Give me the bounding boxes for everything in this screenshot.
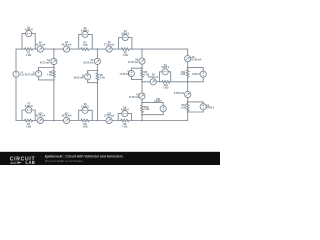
wire VM3 topwire R <box>128 37 132 39</box>
wire loopR2 bottom <box>188 111 204 113</box>
wire top rail seg1 <box>16 48 25 50</box>
label AM1 <box>35 41 45 46</box>
label VM4 <box>161 64 169 69</box>
wire bottom rail seg5 <box>89 120 106 122</box>
wire loopR1 right upper <box>202 67 204 71</box>
ammeter AM3 <box>106 46 112 52</box>
wire loop2 top <box>88 70 98 72</box>
wire VM2 left <box>78 34 80 49</box>
label AM4 <box>40 59 51 64</box>
wire loop3 left lower <box>130 77 132 80</box>
resistor R1 <box>25 48 33 51</box>
label R10 <box>144 107 149 111</box>
wire branch3 lower b <box>141 99 143 105</box>
label AM3 <box>104 41 114 46</box>
wire bottom rail seg3 <box>43 120 63 122</box>
node branch2 loop top node <box>97 70 99 72</box>
voltmeter VM9 <box>122 111 128 117</box>
wire loop2 left upper <box>87 71 89 74</box>
wire VM7 left <box>21 110 23 121</box>
label R2 <box>82 43 87 47</box>
resistor R8 <box>81 119 89 122</box>
voltmeter VM1 <box>26 30 32 36</box>
label VM9 <box>121 107 129 111</box>
svg-text:4.000 V: 4.000 V <box>81 30 89 33</box>
resistor R10 <box>141 105 144 112</box>
wire VM8 topwire R <box>88 109 92 111</box>
wire VM4 right <box>170 72 172 82</box>
wire branch2 lower <box>96 80 98 120</box>
ammeter AM8 <box>150 79 156 85</box>
resistor R9 <box>121 119 129 122</box>
svg-text:kpatkowski : Circuit with Volt: kpatkowski : Circuit with Voltmeter and … <box>45 154 123 158</box>
label AM9 <box>192 56 202 61</box>
svg-text:1 kΩ: 1 kΩ <box>26 126 31 128</box>
svg-text:17.50 mA: 17.50 mA <box>120 73 130 76</box>
svg-text:1 kΩ: 1 kΩ <box>144 109 149 111</box>
label R7 <box>26 124 31 128</box>
resistor R2 <box>81 48 89 51</box>
label R5 <box>100 75 105 79</box>
svg-text:1 kΩ: 1 kΩ <box>100 77 105 79</box>
label AM8 <box>148 74 158 79</box>
wire VM1 topwire R <box>32 33 35 35</box>
wire branch1 top <box>53 49 55 58</box>
svg-text:4.000 V: 4.000 V <box>81 105 89 108</box>
voltmeter VM5 <box>200 71 206 77</box>
ammeter AM2 <box>63 46 69 52</box>
svg-text:17.50 mA: 17.50 mA <box>128 61 138 64</box>
label AM12 <box>104 112 114 117</box>
label R11 <box>163 85 168 89</box>
wire top rail seg2 <box>33 48 38 50</box>
wire left edge lower <box>15 77 17 120</box>
wire loop2 left lower <box>87 80 89 83</box>
node branch1 loop top node <box>53 67 55 69</box>
wire right edge a <box>187 49 189 55</box>
wire right edge b <box>187 62 189 70</box>
wire bottom rail seg4 <box>70 120 81 122</box>
wire loop3 top <box>131 67 142 69</box>
wire left edge upper <box>15 49 17 71</box>
wire bottom rail seg7 <box>129 120 188 122</box>
label VM1 <box>25 27 33 31</box>
source I3 <box>128 70 134 76</box>
wire top rail seg4 <box>70 48 81 50</box>
resistor R13 <box>186 103 189 110</box>
svg-text:26.25 mA: 26.25 mA <box>74 77 84 80</box>
wire loop1 bottom <box>39 79 54 81</box>
ammeter AM7 <box>139 93 145 99</box>
ammeter AM4 <box>51 58 57 64</box>
label R3 <box>123 53 128 57</box>
wire branch3 lower a <box>141 82 143 93</box>
wire VM3 right <box>131 38 133 50</box>
label R4 <box>47 71 53 76</box>
wire mid rail seg1 <box>142 81 150 83</box>
wire branch3 to midrail <box>141 77 143 82</box>
node top junction b <box>97 48 99 50</box>
wire loopR2 right lower <box>202 110 204 112</box>
source I1 <box>36 71 42 77</box>
svg-text:8.750 mA: 8.750 mA <box>192 59 202 62</box>
node mid rail right junction <box>187 81 189 83</box>
voltmeter VM7 <box>26 107 32 113</box>
node branch3 loop bottom node <box>141 79 143 81</box>
node branch3 loop top node <box>141 67 143 69</box>
label VM3 <box>121 31 129 35</box>
wire VM8 topwire L <box>79 109 82 111</box>
voltmeter VM3 <box>122 34 128 40</box>
svg-text:http://circuitlab.com/c/7dq4w: http://circuitlab.com/c/7dq4w <box>45 159 84 163</box>
wire right edge d <box>187 98 189 104</box>
svg-text:43.75 mA: 43.75 mA <box>25 74 35 77</box>
wire VM1 left <box>21 34 23 50</box>
ammeter AM6 <box>139 58 145 64</box>
wire loop3 bottom <box>131 78 142 80</box>
wire VM3 topwire L <box>119 37 123 39</box>
wire loopR2 top <box>188 101 204 103</box>
ammeter AM12 <box>106 117 112 123</box>
wire branch3 top <box>141 49 143 58</box>
wire VM2 right <box>91 34 93 49</box>
wire right edge c <box>187 77 189 92</box>
svg-text:4.000 V: 4.000 V <box>161 66 169 69</box>
wire branch2 top <box>96 49 98 58</box>
svg-text:1 V: 1 V <box>20 75 24 77</box>
label VM10 <box>154 99 162 103</box>
wire mid rail seg3 <box>170 81 188 83</box>
wire VM3 left <box>118 38 120 50</box>
label AM7 <box>129 94 140 99</box>
voltmeter VM2 <box>82 31 88 37</box>
label VM7 <box>25 104 33 108</box>
svg-text:26.25 mA: 26.25 mA <box>83 61 93 64</box>
wire branch1 lower <box>53 77 55 120</box>
svg-text:1 kΩ: 1 kΩ <box>82 126 87 128</box>
label AM2 <box>61 41 71 46</box>
svg-text:1 kΩ: 1 kΩ <box>123 55 128 57</box>
wire loop3 left upper <box>130 68 132 70</box>
node right loop2 top node <box>187 101 189 103</box>
svg-text:4.000 V: 4.000 V <box>121 109 129 112</box>
node top junction a <box>53 48 55 50</box>
svg-text:17.50 mA: 17.50 mA <box>129 96 139 99</box>
svg-text:8.750 mA: 8.750 mA <box>148 76 158 79</box>
svg-text:1 kΩ: 1 kΩ <box>163 88 168 90</box>
wire bottom rail seg2 <box>33 120 38 122</box>
svg-text:43.75 mA: 43.75 mA <box>35 115 45 118</box>
wire VM4 left <box>159 72 161 82</box>
label VM6 <box>206 105 214 109</box>
wire loop3b right lower <box>162 112 164 115</box>
svg-text:4.000 V: 4.000 V <box>121 33 129 36</box>
ammeter AM10 <box>37 117 43 123</box>
ammeter AM9 <box>185 56 191 62</box>
label VM5 <box>192 73 200 76</box>
wire loop3b bottom <box>142 114 163 116</box>
wire branch3 to bottom rail <box>141 112 143 120</box>
wire VM7 topwire R <box>32 109 35 111</box>
svg-text:1 kΩ: 1 kΩ <box>26 55 31 57</box>
voltmeter VM10 <box>160 106 166 112</box>
wire branch1 mid <box>53 65 55 70</box>
label VM8 <box>81 104 89 108</box>
label VM2 <box>81 28 89 32</box>
wire loop1 left lower <box>38 77 40 80</box>
label R9 <box>122 124 127 128</box>
node top junction c <box>141 48 143 50</box>
svg-text:43.75 mA: 43.75 mA <box>40 61 50 64</box>
node branch2 loop bottom node <box>97 82 99 84</box>
svg-text:26.25 mA: 26.25 mA <box>61 43 71 46</box>
svg-text:1 kΩ: 1 kΩ <box>47 75 52 77</box>
resistor R11 <box>162 81 170 84</box>
wire loopR1 top <box>188 66 204 68</box>
wire VM4 topwire L <box>160 71 163 73</box>
label AM5 <box>83 59 94 64</box>
wire top rail seg6 <box>112 48 121 50</box>
wire top rail seg7 <box>129 48 188 50</box>
svg-text:8.750 mA: 8.750 mA <box>174 92 184 95</box>
svg-text:4.000 V: 4.000 V <box>206 107 214 110</box>
wire VM8 left <box>78 110 80 120</box>
wire top rail seg5 <box>89 48 106 50</box>
wire branch3 mid <box>141 64 143 70</box>
wire loopR2 right upper <box>202 102 204 104</box>
wire right edge e <box>187 110 189 120</box>
wire VM9 topwire R <box>128 113 131 115</box>
wire mid rail seg2 <box>156 81 162 83</box>
svg-text:4.000 V: 4.000 V <box>192 73 200 76</box>
node right loop2 bottom node <box>187 111 189 113</box>
wire bottom rail seg1 <box>16 120 25 122</box>
wire bottom rail seg6 <box>112 120 121 122</box>
svg-text:1 kΩ: 1 kΩ <box>82 45 87 47</box>
label I3 <box>120 72 131 76</box>
svg-text:4.000 V: 4.000 V <box>25 29 33 32</box>
label I1 <box>25 72 36 76</box>
wire VM2 topwire L <box>79 33 82 35</box>
wire VM4 topwire R <box>168 71 170 73</box>
node branch1 loop bottom node <box>53 79 55 81</box>
node loop3b bottom node <box>141 114 143 116</box>
svg-text:LAB: LAB <box>25 160 35 165</box>
wire top rail seg3 <box>43 48 63 50</box>
ammeter AM13 <box>185 91 191 97</box>
label AM13 <box>174 92 184 95</box>
wire VM7 right <box>34 110 36 121</box>
label AM11 <box>61 112 71 117</box>
svg-text:43.75 mA: 43.75 mA <box>35 43 45 46</box>
node bottom junction a <box>53 120 55 122</box>
wire VM1 right <box>34 34 36 50</box>
resistor R5 <box>96 73 99 80</box>
wire VM7 topwire L <box>22 109 26 111</box>
svg-text:17.50 mA: 17.50 mA <box>104 115 114 118</box>
wire loop3b right upper <box>162 102 164 105</box>
resistor R7 <box>25 119 33 122</box>
wire loop2 bottom <box>88 82 98 84</box>
label R8 <box>82 124 87 128</box>
label V1 <box>20 73 24 77</box>
label R12 <box>180 72 186 76</box>
source I2 <box>85 74 91 80</box>
wire loop3b top <box>142 101 163 103</box>
node bottom junction c <box>141 120 143 122</box>
footer bar <box>0 152 220 165</box>
label R13 <box>181 105 187 109</box>
label AM6 <box>128 59 139 64</box>
ammeter AM5 <box>94 58 100 64</box>
svg-text:17.50 mA: 17.50 mA <box>104 43 114 46</box>
wire VM9 left <box>117 114 119 121</box>
label I2 <box>74 75 85 79</box>
wire loopR1 right lower <box>202 77 204 82</box>
label AM10 <box>35 112 45 117</box>
ammeter AM1 <box>37 46 43 52</box>
node midrail left junction <box>141 81 143 83</box>
resistor R4 <box>53 70 56 77</box>
voltmeter VM8 <box>82 107 88 113</box>
svg-text:1 kΩ: 1 kΩ <box>180 74 185 76</box>
CircuitLab logo <box>10 157 36 165</box>
voltmeter VM4 <box>162 69 168 75</box>
resistor R3 <box>121 48 129 51</box>
node loop3b top node <box>141 102 143 104</box>
wire VM9 right <box>130 114 132 121</box>
ammeter AM11 <box>63 117 69 123</box>
wire branch2 mid <box>96 65 98 74</box>
svg-text:4.000 V: 4.000 V <box>25 105 33 108</box>
node bottom junction b <box>97 120 99 122</box>
label R6 <box>144 72 149 76</box>
svg-text:1 kΩ: 1 kΩ <box>122 126 127 128</box>
wire VM8 right <box>91 110 93 120</box>
node right loop1 top node <box>187 67 189 69</box>
label R1 <box>26 53 31 57</box>
svg-text:4.000 V: 4.000 V <box>154 100 162 103</box>
wire loop1 left upper <box>38 68 40 71</box>
wire loopR1 bottom <box>188 81 204 83</box>
wire loop1 top <box>39 67 54 69</box>
resistor R12 <box>186 70 189 77</box>
resistor R6 <box>141 70 144 77</box>
wire VM9 topwire L <box>118 113 122 115</box>
svg-text:1 kΩ: 1 kΩ <box>181 108 186 110</box>
source V1 <box>13 71 19 77</box>
svg-text:26.25 mA: 26.25 mA <box>61 115 71 118</box>
wire VM2 topwire R <box>88 33 92 35</box>
voltmeter VM6 <box>200 104 206 110</box>
wire VM1 topwire L <box>22 33 26 35</box>
